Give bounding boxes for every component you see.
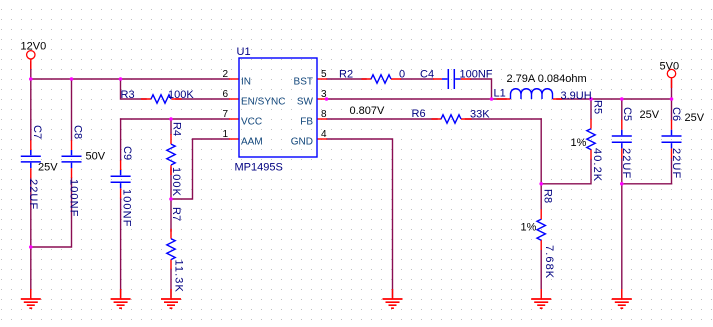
svg-text:0.807V: 0.807V: [350, 105, 386, 117]
resistor R2 zigzag: [371, 75, 391, 83]
wire R2 to C4: [401, 78, 433, 80]
svg-text:100NF: 100NF: [121, 189, 133, 228]
C8 pin stubs: [71, 140, 73, 178]
svg-text:25V: 25V: [640, 109, 660, 121]
ground C5: [612, 299, 632, 308]
capacitor C5 plates: [612, 130, 632, 149]
node VOUT / C5: [620, 97, 624, 101]
wire C6 top: [671, 99, 673, 120]
capacitor C4 plates: [442, 69, 461, 89]
C5 pin stubs: [621, 120, 623, 159]
svg-text:AAM: AAM: [241, 137, 263, 148]
R3 pin stubs: [141, 98, 182, 100]
pin 7 stub: [229, 118, 239, 120]
svg-text:2: 2: [222, 69, 228, 80]
svg-text:7: 7: [222, 109, 228, 120]
wire C5 top: [621, 99, 623, 120]
svg-text:40.2K: 40.2K: [591, 148, 603, 182]
node C5 bottom: [620, 182, 624, 186]
capacitor C9 plates: [111, 170, 131, 188]
5V0 port stub: [671, 78, 673, 88]
svg-text:C5: C5: [621, 107, 633, 121]
wire AAM pin path: [171, 139, 229, 199]
svg-text:22UF: 22UF: [670, 148, 682, 179]
svg-text:100NF: 100NF: [460, 69, 493, 81]
pin 3 stub: [317, 98, 327, 100]
node VOUT / R5: [589, 97, 593, 101]
R2 pin stubs: [362, 78, 402, 80]
ground R8: [531, 299, 551, 308]
R6 pin stubs: [432, 118, 472, 120]
svg-text:2.79A 0.084ohm: 2.79A 0.084ohm: [507, 73, 587, 85]
wire R7 bottom to ground: [170, 269, 172, 297]
svg-text:5: 5: [321, 69, 327, 80]
wire FB drop: [540, 119, 542, 184]
wire 12V bus to pin IN: [31, 78, 229, 80]
wire R4 bottom: [170, 168, 172, 199]
12V0 port stub: [30, 59, 32, 69]
L1 pin stubs: [497, 98, 563, 100]
R4 pin stubs: [170, 134, 172, 175]
wire C8 top: [71, 79, 73, 140]
svg-text:0: 0: [399, 69, 405, 81]
svg-text:C9: C9: [121, 146, 133, 160]
op-amp U1 MP1495S body: [239, 58, 317, 157]
node SW / bootstrap: [490, 97, 494, 101]
resistor R7 zigzag: [167, 239, 175, 260]
svg-text:U1: U1: [237, 46, 251, 58]
svg-text:MP1495S: MP1495S: [235, 162, 283, 174]
C4 pin stubs: [433, 78, 471, 80]
node 12V bus / R3: [119, 77, 123, 81]
svg-text:50V: 50V: [86, 151, 106, 163]
ground stub C7: [30, 289, 32, 299]
wire R8 bottom to ground: [540, 250, 542, 297]
inductor L1 humps: [511, 89, 553, 99]
wire R8 top: [540, 184, 542, 210]
svg-text:25V: 25V: [38, 162, 58, 174]
wire R7 top: [170, 199, 172, 231]
wire C9 top: [120, 119, 122, 160]
wire SW to L1: [327, 98, 506, 100]
pin 5 stub: [317, 78, 327, 80]
node FB divider: [539, 182, 543, 186]
C7 pin stubs: [30, 140, 32, 178]
svg-text:12V0: 12V0: [21, 41, 47, 53]
svg-text:R5: R5: [592, 100, 604, 114]
wire R3 to pin EN/SYNC: [176, 98, 229, 100]
svg-text:3.9UH: 3.9UH: [561, 90, 592, 102]
svg-text:100NF: 100NF: [68, 179, 80, 218]
svg-text:R8: R8: [542, 189, 554, 203]
ground C9: [111, 299, 131, 308]
svg-text:R6: R6: [412, 108, 426, 120]
wire 5V0 port drop: [671, 80, 673, 99]
pin 2 stub: [229, 78, 239, 80]
node SW pin: [325, 97, 329, 101]
wire FB to R6: [327, 118, 437, 120]
node VCC / R4: [169, 117, 173, 121]
R7 pin stubs: [170, 229, 172, 269]
svg-text:GND: GND: [291, 137, 313, 148]
ground stub U1 GND: [392, 289, 394, 299]
svg-text:11.3K: 11.3K: [173, 260, 185, 293]
wire C8 bottom jog to C7: [31, 178, 72, 247]
pin 1 stub: [229, 138, 239, 140]
svg-text:4: 4: [321, 129, 327, 140]
resistor R4 zigzag: [167, 144, 175, 165]
svg-text:33K: 33K: [470, 109, 490, 121]
svg-text:22UF: 22UF: [27, 179, 39, 210]
svg-text:1%: 1%: [521, 222, 537, 234]
svg-text:5V0: 5V0: [660, 61, 680, 73]
svg-text:22UF: 22UF: [620, 148, 632, 179]
svg-text:C6: C6: [670, 107, 682, 121]
svg-text:C4: C4: [420, 69, 434, 81]
wire C7 bottom to ground: [30, 178, 32, 297]
svg-text:IN: IN: [241, 77, 251, 88]
svg-text:1: 1: [222, 129, 228, 140]
ground stub R8: [540, 289, 542, 299]
svg-text:VCC: VCC: [241, 117, 262, 128]
wire L1 to 5V0 column: [557, 98, 672, 100]
capacitor C8 plates: [62, 150, 82, 168]
pin 6 stub: [229, 98, 239, 100]
wire R3 branch from bus: [121, 79, 147, 99]
svg-text:100K: 100K: [170, 167, 182, 197]
wire R5 top: [590, 99, 592, 119]
C6 pin stubs: [671, 120, 673, 159]
ground C7: [21, 299, 41, 308]
wire BST to R2: [327, 78, 366, 80]
wire C7 top: [30, 79, 32, 140]
wire R4 top: [170, 119, 172, 134]
node C7 / C8 bottom: [29, 245, 33, 249]
svg-text:25V: 25V: [685, 112, 705, 124]
wire R6 to FB drop: [466, 118, 542, 120]
svg-text:1%: 1%: [571, 137, 587, 149]
svg-text:R4: R4: [171, 122, 183, 136]
ground stub C5: [621, 289, 623, 299]
R5 pin stubs: [590, 119, 592, 160]
svg-text:C7: C7: [31, 125, 43, 139]
C9 pin stubs: [120, 160, 122, 198]
pin 4 stub: [317, 138, 327, 140]
svg-text:EN/SYNC: EN/SYNC: [241, 97, 285, 108]
svg-text:8: 8: [321, 109, 327, 120]
resistor R8 zigzag: [537, 219, 545, 240]
svg-text:SW: SW: [297, 97, 314, 108]
wire C4 down to SW node: [471, 79, 492, 99]
ground stub C9: [120, 289, 122, 299]
power port 12V0 circle: [27, 51, 35, 59]
svg-text:R3: R3: [121, 89, 135, 101]
power port 5V0 circle: [667, 69, 675, 77]
svg-text:100K: 100K: [168, 89, 194, 101]
svg-text:BST: BST: [294, 77, 313, 88]
ground R7: [161, 299, 181, 308]
ground stub R7: [170, 289, 172, 299]
wire C9 bottom to ground: [120, 198, 122, 297]
node R4 / R7 / AAM: [169, 197, 173, 201]
ground U1: [383, 299, 403, 308]
resistor R6 zigzag: [441, 115, 461, 123]
wire VCC line: [121, 118, 229, 120]
wire lower output bus C5 to C6: [622, 183, 672, 185]
resistor R3 zigzag: [151, 95, 171, 103]
svg-text:3: 3: [321, 89, 327, 100]
resistor R5 zigzag: [587, 129, 595, 150]
wire GND pin path: [327, 139, 393, 297]
capacitor C7 plates: [21, 150, 41, 168]
wire C6 bottom: [671, 158, 673, 183]
svg-text:R7: R7: [170, 207, 182, 221]
svg-text:C8: C8: [72, 125, 84, 139]
node 12V bus / C7: [29, 77, 33, 81]
node VOUT / C6: [670, 97, 674, 101]
wire C5 bottom: [621, 158, 623, 183]
wire R5 bottom to FB node: [541, 159, 591, 183]
svg-text:7.68K: 7.68K: [543, 245, 555, 279]
capacitor C6 plates: [662, 130, 682, 149]
wire C5 node to ground: [621, 184, 623, 297]
svg-text:R2: R2: [339, 69, 353, 81]
R8 pin stubs: [540, 209, 542, 250]
svg-text:6: 6: [222, 89, 228, 100]
svg-text:FB: FB: [300, 117, 313, 128]
pin 8 stub: [317, 118, 327, 120]
wire 12V0 port drop: [30, 62, 32, 79]
svg-text:L1: L1: [494, 88, 506, 100]
node 12V bus / C8: [70, 77, 74, 81]
